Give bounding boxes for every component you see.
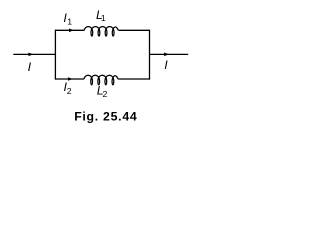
svg-text:Fig. 25.44: Fig. 25.44: [74, 109, 137, 123]
wire right vertical: [149, 30, 151, 80]
svg-text:1: 1: [101, 13, 106, 23]
arrow current I1: [69, 29, 74, 33]
wire bottom branch left segment: [55, 78, 84, 80]
arrow current I right: [164, 53, 169, 57]
inductor L2: [84, 75, 119, 84]
inductor L1: [84, 27, 119, 36]
wire left vertical: [54, 30, 56, 80]
wire top branch left segment: [55, 29, 84, 31]
svg-text:I: I: [28, 60, 32, 74]
svg-text:2: 2: [67, 86, 72, 96]
svg-text:1: 1: [67, 16, 72, 26]
arrow current I left: [28, 53, 33, 57]
svg-text:I: I: [164, 58, 168, 72]
wire top branch right segment: [119, 29, 150, 31]
wire bottom branch right segment: [119, 78, 150, 80]
wire right output: [150, 53, 189, 55]
arrow current I2: [68, 77, 73, 81]
svg-text:2: 2: [103, 89, 108, 99]
wire left input: [13, 53, 55, 55]
